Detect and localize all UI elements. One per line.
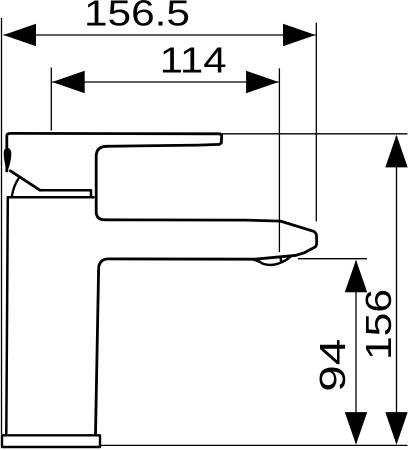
svg-text:156: 156 — [358, 289, 399, 360]
svg-text:94: 94 — [312, 339, 353, 392]
svg-text:156.5: 156.5 — [84, 0, 190, 34]
svg-text:114: 114 — [160, 40, 227, 81]
